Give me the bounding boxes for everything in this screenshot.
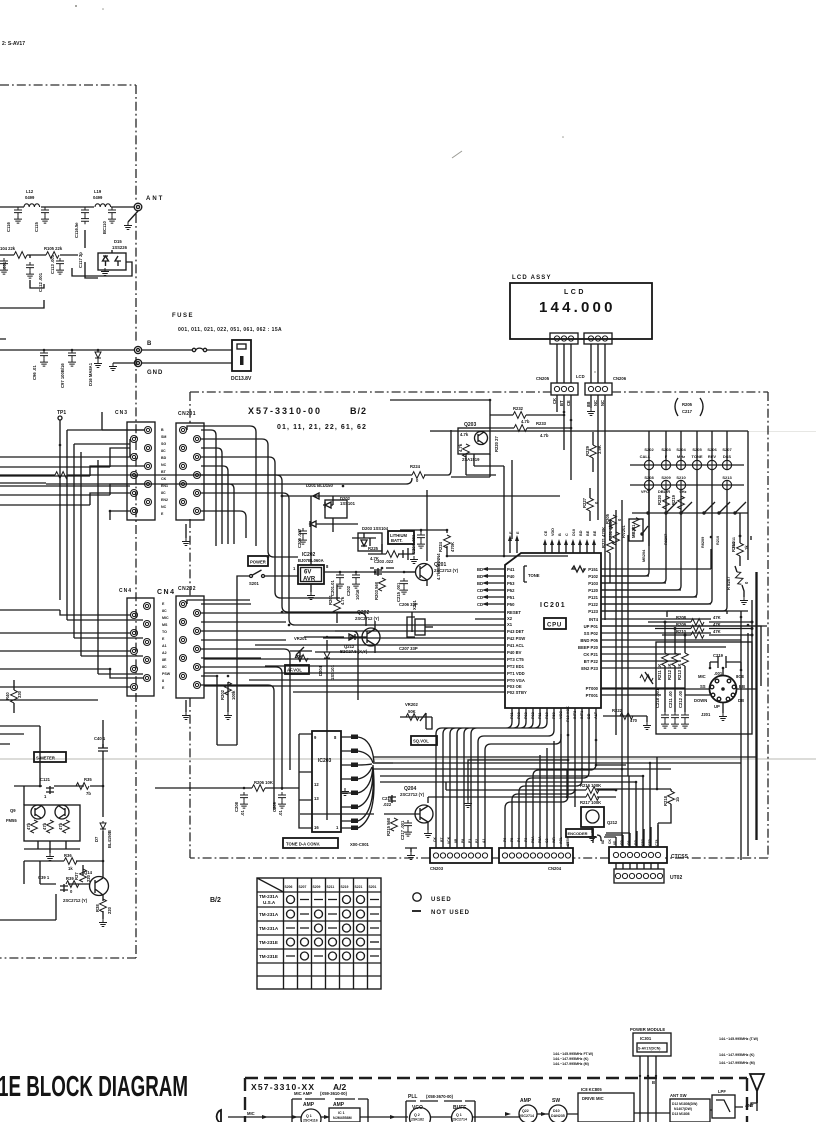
svg-text:LCD ASSY: LCD ASSY (512, 275, 552, 281)
svg-text:S-AV17(DCN): S-AV17(DCN) (638, 1047, 661, 1051)
svg-text:X2: X2 (507, 616, 513, 621)
svg-text:P03 OE: P03 OE (507, 684, 522, 689)
svg-text:MB204: MB204 (642, 549, 646, 562)
svg-text:BT P22: BT P22 (584, 659, 599, 664)
svg-text:4.7k: 4.7k (340, 596, 345, 605)
svg-text:C115: C115 (34, 222, 39, 232)
svg-text:CN201: CN201 (178, 411, 196, 417)
svg-text:P63: P63 (524, 712, 528, 719)
svg-text:AVR: AVR (303, 577, 316, 583)
svg-text:2SC2712 (Y): 2SC2712 (Y) (355, 616, 380, 621)
svg-text:R40: R40 (5, 692, 10, 700)
svg-text:8B: 8B (586, 402, 591, 407)
svg-text:R206 10K: R206 10K (254, 780, 273, 785)
svg-text:8C: 8C (161, 449, 166, 453)
svg-text:P8: P8 (461, 839, 465, 843)
svg-text:2SC2712 (Y): 2SC2712 (Y) (400, 792, 425, 797)
svg-text:1SS101: 1SS101 (340, 501, 356, 506)
svg-text:P151: P151 (588, 567, 598, 572)
svg-text:8C: 8C (162, 609, 167, 613)
svg-text:Q22: Q22 (522, 1109, 529, 1113)
svg-text:VCK: VCK (447, 836, 451, 844)
svg-text:BL4150B: BL4150B (107, 830, 112, 848)
svg-text:47b: 47b (26, 822, 31, 830)
svg-text:B/2: B/2 (210, 897, 221, 904)
svg-text:S201: S201 (369, 885, 377, 889)
svg-text:BD: BD (477, 581, 483, 586)
svg-text:BD: BD (579, 530, 583, 536)
svg-text:01, 11, 21, 22, 61, 62: 01, 11, 21, 22, 61, 62 (277, 424, 367, 431)
svg-text:0499: 0499 (93, 195, 103, 200)
svg-text:BD: BD (161, 456, 167, 460)
svg-text:.01: .01 (278, 810, 283, 816)
svg-text:4.7k: 4.7k (460, 432, 469, 437)
svg-text:144.~147.995MHz (K): 144.~147.995MHz (K) (553, 1057, 589, 1061)
svg-text:A2: A2 (162, 651, 167, 655)
svg-text:CD: CD (620, 840, 624, 845)
svg-text:X57-3310-00: X57-3310-00 (248, 406, 322, 416)
svg-text:MB231: MB231 (631, 524, 636, 538)
svg-text:R37: R37 (74, 872, 79, 880)
svg-text:VCC: VCC (559, 711, 563, 719)
svg-text:CN204: CN204 (548, 866, 562, 871)
svg-text:SQ.VOL: SQ.VOL (413, 739, 429, 744)
svg-text:CK: CK (608, 839, 612, 844)
svg-text:R203 560: R203 560 (374, 581, 379, 600)
svg-text:TM-231E: TM-231E (259, 954, 278, 959)
svg-text:.022: .022 (383, 802, 392, 807)
svg-text:GND: GND (147, 370, 163, 376)
svg-text:R208: R208 (676, 615, 687, 620)
svg-text:47K: 47K (713, 629, 721, 634)
svg-text:SS P02: SS P02 (584, 631, 599, 636)
svg-text:CN205: CN205 (536, 376, 550, 381)
svg-text:ACL: ACL (559, 837, 563, 844)
svg-text:P8A: P8A (538, 836, 542, 843)
svg-text:P6: P6 (503, 838, 507, 842)
svg-text:WR: WR (552, 837, 556, 843)
svg-text:SG: SG (161, 442, 166, 446)
svg-text:R210: R210 (676, 629, 687, 634)
svg-text:S-METER: S-METER (36, 756, 55, 761)
svg-text:4.7k: 4.7k (458, 443, 463, 452)
svg-text:R38: R38 (95, 904, 100, 912)
svg-text:Q 1: Q 1 (456, 1113, 462, 1117)
svg-text:47K: 47K (713, 615, 721, 620)
svg-text:CN4: CN4 (157, 589, 176, 596)
svg-text:P61: P61 (510, 712, 514, 719)
svg-text:S213: S213 (722, 475, 732, 480)
svg-text:P50: P50 (552, 712, 556, 719)
svg-text:D7: D7 (94, 836, 99, 842)
svg-text:BE: BE (586, 530, 590, 536)
svg-text:R213 1K: R213 1K (677, 663, 682, 680)
svg-text:10K: 10K (295, 654, 303, 659)
svg-text:AMP: AMP (333, 1102, 345, 1108)
svg-text:CD: CD (477, 588, 483, 593)
svg-text:G2: G2 (545, 838, 549, 843)
svg-text:P5: P5 (510, 838, 514, 842)
svg-text:R222: R222 (612, 708, 623, 713)
svg-text:4.7b: 4.7b (521, 419, 530, 424)
svg-text:220: 220 (107, 906, 112, 914)
svg-text:CK P21: CK P21 (583, 652, 598, 657)
svg-text:C116.5e: C116.5e (74, 222, 79, 238)
svg-text:CPU: CPU (547, 623, 562, 629)
svg-text:P10: P10 (545, 712, 549, 719)
svg-text:BD: BD (587, 713, 591, 719)
svg-text:P53: P53 (507, 581, 515, 586)
svg-text:A1: A1 (162, 644, 167, 648)
svg-text:8: 8 (162, 679, 164, 683)
svg-text:C113 .001: C113 .001 (50, 254, 55, 274)
svg-text:Q 1: Q 1 (306, 1114, 312, 1118)
svg-text:.001: .001 (2, 261, 7, 270)
svg-text:C203 .022: C203 .022 (374, 559, 394, 564)
svg-text:LCD: LCD (576, 374, 585, 379)
svg-text:(X58-3670-00): (X58-3670-00) (426, 1094, 454, 1099)
svg-text:TP1: TP1 (57, 410, 66, 416)
svg-text:C211 .00: C211 .00 (668, 691, 673, 708)
svg-text:PLL: PLL (408, 1094, 417, 1100)
svg-text:DC13.8V: DC13.8V (231, 376, 252, 382)
svg-text:R39: R39 (66, 876, 74, 881)
svg-text:D203 1SS104: D203 1SS104 (362, 526, 389, 531)
svg-text:P3: P3 (524, 838, 528, 842)
svg-text:CN206: CN206 (613, 376, 627, 381)
svg-text:10/16: 10/16 (355, 589, 360, 600)
svg-text:ANT: ANT (146, 196, 164, 202)
svg-text:P42 PSW: P42 PSW (507, 636, 525, 641)
svg-text:8C: 8C (161, 491, 166, 495)
svg-text:CN203: CN203 (430, 866, 444, 871)
svg-text:3.9K: 3.9K (597, 445, 602, 454)
svg-text:.01: .01 (240, 810, 245, 816)
svg-text:P11: P11 (538, 712, 542, 719)
svg-text:144.~145.995MHz FT.W): 144.~145.995MHz FT.W) (553, 1052, 594, 1056)
svg-text:PT001: PT001 (586, 693, 599, 698)
svg-text:UT02: UT02 (670, 875, 682, 881)
svg-text:IC 1: IC 1 (338, 1111, 345, 1115)
svg-text:CK: CK (552, 398, 557, 404)
svg-text:P4: P4 (517, 838, 521, 842)
svg-text:MIC: MIC (247, 1111, 255, 1116)
svg-text:SW: SW (552, 1098, 560, 1104)
svg-text:CK: CK (161, 477, 167, 481)
svg-text:R212 1K: R212 1K (667, 663, 672, 680)
svg-text:PT3 CT5: PT3 CT5 (507, 657, 524, 662)
svg-text:P40: P40 (507, 574, 515, 579)
svg-text:R215 560: R215 560 (386, 817, 391, 836)
svg-text:D204: D204 (318, 665, 323, 676)
svg-text:ANT: ANT (745, 1103, 754, 1108)
svg-text:C116: C116 (6, 222, 11, 232)
svg-text:BND P05: BND P05 (580, 638, 598, 643)
svg-text:CE: CE (566, 400, 571, 406)
svg-text:P102: P102 (588, 574, 598, 579)
svg-text:ALT: ALT (594, 711, 598, 719)
svg-text:P41 ACL: P41 ACL (507, 643, 525, 648)
svg-text:TONE: TONE (528, 573, 540, 578)
svg-text:TM-231A: TM-231A (259, 894, 279, 899)
svg-text:S206: S206 (285, 885, 293, 889)
svg-text:TM-231A: TM-231A (259, 926, 279, 931)
svg-text:C112 .001: C112 .001 (38, 272, 43, 292)
svg-text:B: B (558, 533, 562, 536)
svg-text:C96 .01: C96 .01 (32, 365, 37, 380)
svg-text:Q14: Q14 (84, 870, 93, 875)
svg-text:470: 470 (630, 718, 638, 723)
svg-text:BT: BT (161, 470, 167, 474)
svg-text:144.~147.995MHz (M): 144.~147.995MHz (M) (719, 1061, 756, 1065)
svg-text:A1: A1 (482, 839, 486, 843)
svg-text:P121: P121 (588, 595, 598, 600)
svg-text:Q9: Q9 (10, 808, 16, 813)
svg-text:P51: P51 (507, 595, 515, 600)
svg-text:S221: S221 (355, 885, 363, 889)
svg-text:CTC: CTC (641, 838, 645, 846)
svg-text:FM55: FM55 (6, 818, 17, 823)
svg-text:NOT USED: NOT USED (431, 910, 470, 916)
svg-text:C117 3p: C117 3p (78, 252, 83, 268)
svg-text:C216: C216 (382, 796, 393, 801)
svg-text:13: 13 (314, 796, 319, 801)
svg-text:1b: 1b (675, 797, 680, 802)
svg-text:UP: UP (714, 704, 720, 709)
svg-text:B/2: B/2 (350, 406, 367, 416)
svg-text:6V: 6V (304, 570, 311, 576)
svg-text:CD: CD (477, 595, 483, 600)
svg-text:DAN235: DAN235 (551, 1114, 565, 1118)
svg-text:8C: 8C (162, 665, 167, 669)
svg-text:J201: J201 (701, 712, 711, 717)
svg-text:16: 16 (314, 825, 319, 830)
svg-text:R211 1K: R211 1K (657, 664, 662, 680)
svg-text:P2: P2 (475, 839, 479, 843)
svg-text:0499: 0499 (25, 195, 35, 200)
svg-text:1SS101: 1SS101 (330, 664, 335, 680)
svg-text:R35: R35 (84, 777, 92, 782)
svg-text:CD: CD (477, 602, 483, 607)
svg-text:2: S-AV17: 2: S-AV17 (2, 41, 25, 47)
svg-text:S209: S209 (313, 885, 321, 889)
svg-text:C121: C121 (40, 777, 51, 782)
svg-text:P02 STBY: P02 STBY (507, 690, 527, 695)
svg-text:1E BLOCK DIAGRAM: 1E BLOCK DIAGRAM (0, 1071, 188, 1103)
svg-text:D13 M1808: D13 M1808 (672, 1112, 690, 1116)
svg-text:Q 2: Q 2 (414, 1113, 420, 1117)
svg-text:R8207: R8207 (664, 534, 668, 545)
svg-text:144.~145.995MHz (T.W): 144.~145.995MHz (T.W) (719, 1037, 759, 1041)
svg-text:D16 MA8A1: D16 MA8A1 (88, 362, 93, 386)
svg-text:TONE D-A CONV.: TONE D-A CONV. (286, 842, 320, 847)
svg-text:R220: R220 (657, 494, 662, 505)
svg-text:LPF: LPF (718, 1089, 726, 1094)
svg-text:CE: CE (544, 530, 548, 536)
svg-text:4.7k685RNN4: 4.7k685RNN4 (436, 553, 441, 580)
svg-text:1k: 1k (744, 545, 749, 550)
svg-text:2SC2712 (Y): 2SC2712 (Y) (63, 898, 88, 903)
svg-text:C218 .001: C218 .001 (655, 688, 660, 708)
svg-text:Q203: Q203 (464, 422, 476, 428)
svg-text:8B: 8B (454, 838, 458, 843)
svg-text:C8: C8 (627, 841, 631, 845)
svg-text:1k: 1k (68, 866, 73, 871)
svg-text:R224: R224 (410, 464, 421, 469)
svg-text:P103: P103 (588, 581, 598, 586)
svg-text:X00-C001: X00-C001 (350, 842, 370, 847)
svg-text:SS: SS (700, 684, 706, 689)
svg-text:R233: R233 (536, 421, 547, 426)
svg-text:P8A: P8A (531, 836, 535, 843)
svg-text:D10: D10 (553, 1109, 560, 1113)
svg-text:R36: R36 (64, 853, 72, 858)
svg-text:BEEP P20: BEEP P20 (578, 645, 599, 650)
svg-text:C209: C209 (272, 801, 277, 812)
svg-text:C212 .00: C212 .00 (678, 690, 683, 708)
svg-text:EN2 P23: EN2 P23 (581, 666, 598, 671)
svg-text:INT1: INT1 (580, 711, 584, 719)
svg-text:P10 VCK: P10 VCK (566, 706, 570, 722)
svg-text:8CE: 8CE (736, 674, 744, 679)
svg-text:U.S.A: U.S.A (263, 900, 276, 905)
svg-text:TM-231A: TM-231A (259, 912, 279, 917)
svg-text:(X59-3610-00): (X59-3610-00) (320, 1091, 348, 1096)
svg-text:2SA1519: 2SA1519 (462, 457, 480, 462)
svg-text:X1: X1 (507, 622, 513, 627)
svg-text:1SS226: 1SS226 (112, 245, 128, 250)
svg-text:TO: TO (162, 630, 167, 634)
svg-text:BATT.: BATT. (391, 538, 403, 543)
svg-text:ANT SW: ANT SW (670, 1093, 687, 1098)
svg-text:DB: DB (634, 840, 638, 845)
svg-text:R201: R201 (328, 594, 333, 605)
svg-text:INT2: INT2 (573, 711, 577, 719)
svg-text:100k: 100k (231, 690, 236, 700)
svg-text:C201.01: C201.01 (330, 579, 335, 596)
svg-text:B: B (147, 341, 152, 347)
svg-text:R231 470K: R231 470K (608, 520, 613, 541)
svg-text:330: 330 (17, 690, 22, 698)
svg-text:CN4: CN4 (119, 588, 132, 594)
svg-text:UP P01: UP P01 (584, 624, 599, 629)
svg-text:R210: R210 (716, 536, 720, 545)
svg-text:P120: P120 (588, 588, 598, 593)
svg-text:USED: USED (431, 897, 452, 903)
svg-text:R205: R205 (682, 402, 693, 407)
svg-text:AF.VOL: AF.VOL (287, 668, 302, 673)
svg-text:CTCSS: CTCSS (671, 854, 689, 860)
svg-text:P1: P1 (468, 839, 472, 843)
svg-text:R225: R225 (368, 546, 379, 551)
svg-text:P60: P60 (517, 712, 521, 719)
svg-text:R217 100K: R217 100K (580, 800, 601, 805)
svg-text:R220 27: R220 27 (494, 435, 499, 452)
svg-text:144.~147.995MHz (K): 144.~147.995MHz (K) (719, 1053, 755, 1057)
svg-text:47b: 47b (42, 822, 47, 830)
svg-text:50K: 50K (408, 709, 416, 714)
svg-text:8D: 8D (613, 840, 617, 845)
svg-text:D15: D15 (114, 239, 122, 244)
svg-text:C40 1: C40 1 (94, 736, 106, 741)
svg-text:2SC4116: 2SC4116 (303, 1119, 318, 1122)
svg-text:MIC: MIC (698, 674, 706, 679)
svg-text:R8209: R8209 (701, 537, 705, 548)
svg-text:2SC2714: 2SC2714 (452, 1118, 467, 1122)
svg-text:P43 DET: P43 DET (507, 629, 524, 634)
svg-text:S207: S207 (299, 885, 307, 889)
svg-text:R224: R224 (438, 541, 443, 552)
svg-text:L12: L12 (26, 189, 34, 194)
svg-text:PT000: PT000 (586, 686, 599, 691)
svg-text:BE: BE (593, 530, 597, 536)
svg-text:DRIVE MIC: DRIVE MIC (582, 1096, 604, 1101)
svg-text:ENCODER: ENCODER (568, 831, 588, 836)
svg-text:C97 100B/16: C97 100B/16 (60, 363, 65, 388)
svg-text:S210: S210 (676, 475, 686, 480)
svg-text:IC8 KC805: IC8 KC805 (581, 1087, 602, 1092)
svg-text:C202: C202 (346, 585, 351, 596)
svg-text:R216 100K: R216 100K (580, 783, 601, 788)
svg-text:POWER: POWER (250, 560, 266, 565)
svg-text:S209: S209 (661, 475, 671, 480)
svg-text:CTP: CTP (648, 838, 652, 846)
svg-text:7b: 7b (86, 791, 91, 796)
svg-text:C208: C208 (234, 801, 239, 812)
svg-text:CN3: CN3 (115, 410, 128, 416)
svg-text:EN2: EN2 (161, 498, 168, 502)
svg-text:L19: L19 (94, 189, 102, 194)
svg-text:C215 .001: C215 .001 (396, 582, 401, 602)
svg-text:D12 M1808(DW): D12 M1808(DW) (672, 1102, 697, 1106)
svg-text:MS: MS (162, 623, 168, 627)
svg-text:P50: P50 (507, 602, 515, 607)
svg-text:C: C (565, 533, 569, 536)
svg-text:47b: 47b (58, 822, 63, 830)
svg-text:144.~147.995MHz (M): 144.~147.995MHz (M) (553, 1062, 590, 1066)
svg-text:P41: P41 (507, 567, 515, 572)
svg-text:C206 33P: C206 33P (399, 602, 418, 607)
svg-text:IC203: IC203 (318, 758, 332, 764)
svg-text:INT4: INT4 (589, 617, 599, 622)
svg-text:BD: BD (477, 567, 483, 572)
svg-text:Q212: Q212 (607, 820, 618, 825)
svg-text:VR202: VR202 (405, 702, 418, 707)
svg-text:CK: CK (433, 837, 437, 842)
svg-text:IC201: IC201 (540, 602, 566, 609)
svg-text:FUSE: FUSE (172, 313, 194, 319)
svg-text:RESET: RESET (507, 610, 521, 615)
svg-text:BC110: BC110 (102, 221, 107, 234)
svg-text:C217: C217 (682, 409, 693, 414)
svg-text:S201: S201 (249, 581, 259, 586)
svg-text:AMP: AMP (303, 1102, 315, 1108)
svg-text:B: B (652, 1080, 655, 1085)
svg-text:P123: P123 (588, 609, 598, 614)
svg-text:MIC AMP: MIC AMP (294, 1091, 312, 1096)
svg-text:CN202: CN202 (178, 586, 196, 592)
svg-text:R 8207: R 8207 (726, 576, 731, 590)
svg-text:S211: S211 (327, 885, 335, 889)
svg-text:NJM4558M: NJM4558M (333, 1116, 352, 1120)
svg-text:NC: NC (600, 400, 605, 406)
svg-text:TM-231E: TM-231E (259, 940, 278, 945)
svg-text:P52: P52 (507, 588, 515, 593)
svg-text:BT: BT (559, 400, 564, 406)
svg-text:D10: D10 (572, 529, 576, 536)
svg-text:R229: R229 (585, 445, 590, 456)
svg-text:BB: BB (739, 684, 745, 689)
